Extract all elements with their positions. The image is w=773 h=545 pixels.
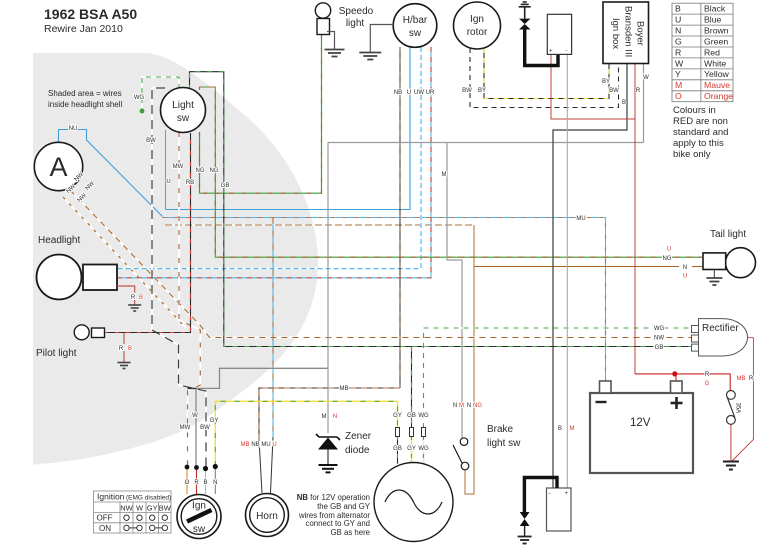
- svg-text:GB: GB: [407, 413, 416, 419]
- svg-text:NW: NW: [654, 336, 664, 342]
- wire U main lighting feed: [166, 47, 411, 210]
- wire M brake switch feed: [447, 143, 462, 439]
- svg-text:U: U: [683, 274, 687, 280]
- wire R boyer to battery: [634, 64, 636, 374]
- svg-text:UW: UW: [414, 90, 424, 96]
- svg-text:BW: BW: [159, 503, 172, 512]
- brake light switch: [453, 438, 469, 470]
- fuse ground: [723, 462, 739, 470]
- svg-text:N: N: [467, 403, 471, 409]
- svg-text:G: G: [675, 36, 682, 46]
- svg-text:Green: Green: [704, 36, 728, 46]
- headlight ground: [117, 286, 141, 311]
- speedo light bulb: [315, 3, 330, 35]
- wire NG tail light feed: [200, 87, 703, 257]
- handlebar switch ground: [359, 25, 393, 60]
- wire BW boyer pickup: [470, 48, 619, 108]
- svg-text:B: B: [558, 426, 562, 432]
- svg-text:diode: diode: [345, 445, 370, 456]
- svg-text:Shaded area = wires: Shaded area = wires: [48, 89, 122, 98]
- wire BW light switch to ignition switch: [152, 88, 206, 466]
- svg-text:Red: Red: [704, 47, 720, 57]
- ignition coil bottom: [524, 478, 571, 532]
- colour legend table: [672, 3, 733, 102]
- wire NB horn button from handlebar: [399, 47, 401, 388]
- svg-text:Ignition: Ignition: [97, 492, 125, 502]
- svg-text:Pilot light: Pilot light: [36, 348, 77, 359]
- svg-text:Y: Y: [675, 69, 681, 79]
- wire ignition switch stub O: [186, 469, 188, 494]
- alternator: [374, 463, 453, 542]
- ignition coil top: [547, 14, 571, 54]
- svg-text:BY: BY: [478, 88, 486, 94]
- svg-text:BW: BW: [462, 88, 472, 94]
- svg-text:Ign: Ign: [470, 14, 484, 25]
- wire W ignition to boyer: [188, 64, 644, 467]
- wire UR main beam: [117, 47, 431, 278]
- svg-text:BW: BW: [146, 138, 156, 144]
- svg-text:White: White: [704, 58, 726, 68]
- svg-text:B: B: [622, 100, 626, 106]
- ignition table: [94, 491, 171, 533]
- svg-text:RB: RB: [186, 180, 194, 186]
- wire WG light switch: [140, 77, 179, 113]
- headlight shell shaded area: [33, 53, 318, 465]
- svg-text:sw: sw: [193, 524, 206, 535]
- svg-text:W: W: [192, 413, 198, 419]
- boyer bransden box: [603, 2, 649, 64]
- svg-text:Boyer: Boyer: [635, 21, 646, 46]
- svg-text:G: G: [705, 381, 710, 387]
- svg-text:M: M: [570, 426, 575, 432]
- svg-text:MW: MW: [180, 425, 191, 431]
- wire B boyer to coil: [553, 64, 627, 489]
- wire GB light switch to rectifier: [190, 72, 692, 347]
- svg-text:O: O: [675, 91, 682, 101]
- svg-text:U: U: [166, 179, 170, 185]
- svg-text:NG: NG: [473, 403, 482, 409]
- svg-text:MU: MU: [576, 216, 585, 222]
- svg-text:Rectifier: Rectifier: [702, 323, 739, 334]
- svg-text:NW: NW: [120, 503, 133, 512]
- wire alternator stub GY: [411, 436, 413, 464]
- svg-text:Blue: Blue: [704, 15, 722, 25]
- red colour note: [673, 105, 728, 160]
- svg-text:inside headlight shell: inside headlight shell: [48, 100, 122, 109]
- battery 12V: [590, 381, 693, 473]
- svg-text:W: W: [643, 75, 649, 81]
- svg-text:U: U: [407, 90, 411, 96]
- svg-text:Ign: Ign: [192, 501, 206, 512]
- svg-text:(EMG disabled): (EMG disabled): [126, 495, 171, 502]
- svg-text:-: -: [549, 491, 551, 497]
- svg-text:12V: 12V: [630, 417, 651, 429]
- svg-text:M: M: [442, 172, 447, 178]
- svg-text:Ign box: Ign box: [610, 18, 621, 49]
- svg-text:N: N: [213, 480, 217, 486]
- svg-text:B: B: [203, 480, 207, 486]
- svg-text:NG: NG: [663, 256, 672, 262]
- NB note: [297, 493, 371, 537]
- svg-text:OFF: OFF: [97, 514, 113, 523]
- rectifier: [692, 319, 748, 356]
- svg-text:B: B: [675, 4, 681, 14]
- svg-text:BW: BW: [200, 425, 210, 431]
- svg-text:rotor: rotor: [467, 27, 488, 38]
- svg-text:Mauve: Mauve: [704, 80, 730, 90]
- svg-text:-: -: [566, 49, 568, 55]
- svg-text:NG: NG: [196, 168, 205, 174]
- tail light ground: [706, 270, 722, 286]
- wire alternator stub WG: [423, 436, 425, 464]
- wire N brown run to tail: [165, 225, 703, 494]
- wire U light switch drop: [165, 130, 167, 210]
- svg-text:1962 BSA A50: 1962 BSA A50: [44, 6, 137, 22]
- wire MW light switch to ignition switch: [179, 132, 200, 466]
- svg-text:35A: 35A: [735, 403, 741, 414]
- svg-text:R: R: [131, 295, 136, 301]
- wire WG alternator to rectifier: [424, 328, 692, 428]
- svg-text:the GB and GY: the GB and GY: [317, 502, 371, 511]
- svg-text:R: R: [675, 47, 681, 57]
- svg-text:B: B: [139, 295, 143, 301]
- svg-text:Horn: Horn: [256, 511, 278, 522]
- svg-text:Headlight: Headlight: [38, 235, 80, 246]
- fuse 35A: [727, 391, 741, 425]
- wire ignition switch stub N: [214, 469, 216, 494]
- svg-text:+: +: [549, 49, 553, 55]
- svg-text:connect to GY and: connect to GY and: [306, 519, 370, 528]
- svg-text:Brown: Brown: [704, 25, 729, 35]
- svg-text:MU: MU: [261, 442, 270, 448]
- svg-text:Rewire Jan 2010: Rewire Jan 2010: [44, 23, 123, 35]
- svg-text:R: R: [194, 480, 199, 486]
- headlight: [37, 255, 118, 300]
- svg-text:GY: GY: [393, 413, 402, 419]
- svg-text:N: N: [453, 403, 457, 409]
- ammeter A: [34, 142, 82, 190]
- svg-text:GY: GY: [407, 446, 416, 452]
- svg-text:BW: BW: [609, 88, 619, 94]
- wire ignition switch stub R: [196, 469, 198, 494]
- wire ignition switch stub B blue: [205, 469, 207, 494]
- horn: [246, 494, 289, 537]
- wire R coil feed: [551, 54, 635, 119]
- wire M zener lead: [327, 143, 329, 434]
- svg-text:Light: Light: [172, 100, 194, 111]
- svg-text:Brake: Brake: [487, 424, 514, 435]
- light switch: [161, 88, 206, 133]
- wire MB horn lead: [259, 388, 400, 448]
- wire NU ammeter feed: [59, 130, 163, 217]
- svg-text:R: R: [119, 346, 124, 352]
- wire M coil lead: [566, 54, 568, 488]
- wire MB rectifier to ground: [719, 336, 754, 461]
- svg-text:MB: MB: [241, 442, 250, 448]
- svg-text:NB: NB: [394, 90, 402, 96]
- pilot light ground: [118, 333, 131, 369]
- svg-text:RED are non: RED are non: [673, 116, 728, 127]
- svg-text:GB: GB: [221, 183, 230, 189]
- svg-text:NG: NG: [210, 168, 219, 174]
- wire NW ammeter to rectifier diagonal: [70, 190, 692, 338]
- svg-text:M: M: [322, 414, 327, 420]
- svg-text:GB: GB: [393, 446, 402, 452]
- svg-text:Yellow: Yellow: [704, 69, 730, 79]
- svg-text:ON: ON: [99, 524, 111, 533]
- svg-text:N: N: [333, 414, 337, 420]
- svg-text:Black: Black: [704, 4, 726, 14]
- wire MU main battery negative run: [163, 218, 606, 382]
- wire GB harness drop to connector: [411, 347, 413, 429]
- junction dots ignition switch: [185, 464, 218, 471]
- svg-text:+: +: [565, 491, 569, 497]
- svg-text:W: W: [136, 503, 144, 512]
- svg-text:R: R: [636, 88, 641, 94]
- svg-text:H/bar: H/bar: [403, 15, 428, 26]
- svg-text:light sw: light sw: [487, 438, 521, 449]
- wire labels: [66, 75, 754, 486]
- wire NG speedo branch: [200, 35, 322, 193]
- svg-text:N: N: [675, 25, 681, 35]
- wire horn tails: [260, 437, 274, 493]
- svg-text:GY: GY: [147, 503, 158, 512]
- svg-text:NB: NB: [251, 442, 259, 448]
- svg-text:sw: sw: [409, 28, 422, 39]
- svg-text:light: light: [346, 18, 365, 29]
- tail light: [703, 248, 756, 278]
- svg-text:GY: GY: [210, 418, 219, 424]
- wire NW second diagonal: [63, 197, 186, 328]
- contact breaker bottom: [518, 512, 532, 544]
- wire R fuse to ground: [730, 424, 732, 461]
- svg-text:M: M: [459, 403, 464, 409]
- svg-text:apply to this: apply to this: [673, 138, 724, 149]
- svg-text:Bransden III: Bransden III: [623, 6, 634, 57]
- contact breaker and ground above coil U1: [519, 2, 558, 66]
- svg-text:WG: WG: [134, 95, 145, 101]
- svg-text:A: A: [49, 152, 67, 182]
- wire alternator stub GB: [397, 436, 399, 464]
- svg-text:Zener: Zener: [345, 431, 372, 442]
- svg-text:WG: WG: [654, 326, 665, 332]
- svg-text:UR: UR: [426, 90, 435, 96]
- svg-text:BY: BY: [602, 79, 610, 85]
- svg-text:R: R: [749, 376, 754, 382]
- zener diode symbol: [316, 434, 340, 472]
- ignition rotor: [454, 2, 501, 49]
- svg-text:O: O: [185, 480, 190, 486]
- svg-text:Orange: Orange: [704, 91, 733, 101]
- wire UW dip beam: [117, 47, 421, 269]
- svg-text:U: U: [667, 247, 671, 253]
- svg-text:U: U: [272, 442, 276, 448]
- svg-text:WG: WG: [418, 446, 429, 452]
- svg-text:bike only: bike only: [673, 149, 711, 160]
- svg-text:R: R: [705, 372, 710, 378]
- svg-text:MB: MB: [737, 376, 746, 382]
- svg-text:GB as here: GB as here: [331, 528, 370, 537]
- svg-text:B: B: [128, 346, 132, 352]
- wire MU horn lead: [272, 218, 274, 438]
- ignition switch: [177, 495, 221, 539]
- svg-text:W: W: [675, 58, 684, 68]
- alternator connectors: [396, 428, 426, 437]
- svg-text:Tail light: Tail light: [710, 229, 746, 240]
- svg-text:N: N: [683, 265, 687, 271]
- svg-text:sw: sw: [177, 113, 190, 124]
- svg-text:standard and: standard and: [673, 127, 728, 138]
- pilot light: [74, 325, 104, 340]
- svg-text:NB for 12V operation: NB for 12V operation: [297, 493, 370, 502]
- handlebar switch: [393, 4, 437, 48]
- speedo light ground: [325, 32, 345, 57]
- svg-text:Speedo: Speedo: [339, 6, 374, 17]
- svg-text:WG: WG: [418, 413, 429, 419]
- svg-text:MW: MW: [173, 164, 184, 170]
- wire GY ignition to alternator: [215, 401, 397, 466]
- svg-text:M: M: [675, 80, 682, 90]
- svg-text:U: U: [675, 15, 681, 25]
- wire RB pilot feed: [104, 133, 191, 333]
- svg-text:GB: GB: [655, 345, 664, 351]
- svg-text:NU: NU: [69, 126, 78, 132]
- wire R battery positive to fuse: [635, 371, 730, 391]
- svg-text:Colours in: Colours in: [673, 105, 716, 116]
- svg-text:MB: MB: [340, 386, 349, 392]
- wire BY boyer pickup: [484, 48, 609, 99]
